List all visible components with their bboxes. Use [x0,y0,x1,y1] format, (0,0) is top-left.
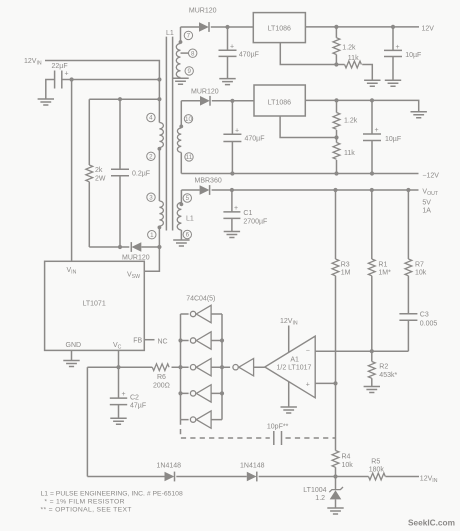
svg-text:74C04(5): 74C04(5) [186,296,215,303]
svg-text:R7: R7 [415,262,424,269]
svg-text:1.2k: 1.2k [344,117,358,124]
svg-text:C2: C2 [130,395,139,402]
svg-text:NC: NC [158,338,168,345]
svg-text:MUR120: MUR120 [189,7,217,14]
svg-text:1N4148: 1N4148 [240,463,265,470]
svg-text:C1: C1 [243,210,252,217]
svg-text:10pF**: 10pF** [267,424,289,431]
svg-text:SeekIC.com: SeekIC.com [408,518,455,528]
svg-text:180k: 180k [369,466,385,473]
svg-text:470µF: 470µF [245,136,265,143]
svg-text:3: 3 [149,194,153,201]
svg-text:9: 9 [187,68,191,75]
svg-text:R5: R5 [371,459,380,466]
svg-text:1.2k: 1.2k [342,45,356,52]
svg-text:1/2 LT1017: 1/2 LT1017 [277,365,312,372]
svg-text:+: + [122,391,126,398]
svg-text:10k: 10k [342,462,354,469]
svg-text:2k: 2k [95,167,103,174]
svg-text:1M*: 1M* [378,269,391,276]
svg-text:A1: A1 [290,357,299,364]
svg-text:2: 2 [149,154,153,161]
svg-text:MUR120: MUR120 [122,255,150,262]
svg-text:R3: R3 [341,262,350,269]
svg-text:* = 1% FILM RESISTOR: * = 1% FILM RESISTOR [44,499,125,506]
svg-text:LT1004: LT1004 [303,487,326,494]
svg-text:LT1086: LT1086 [268,25,291,32]
svg-text:1M: 1M [341,269,351,276]
svg-text:VIN: VIN [67,267,77,276]
svg-text:R6: R6 [157,374,166,381]
svg-text:2700µF: 2700µF [243,219,267,226]
svg-text:8: 8 [191,50,195,57]
svg-text:−12V: −12V [422,172,439,179]
svg-text:+: + [396,44,400,51]
svg-text:12VIN: 12VIN [420,475,438,484]
svg-text:12VIN: 12VIN [280,318,298,327]
svg-text:+: + [230,44,234,51]
svg-text:+: + [234,205,238,212]
svg-text:22µF: 22µF [52,63,68,70]
svg-text:R2: R2 [379,364,388,371]
svg-text:FB: FB [133,338,142,345]
svg-text:6: 6 [186,232,190,239]
svg-text:+: + [306,382,310,389]
svg-text:0.005: 0.005 [420,320,438,327]
svg-text:10µF: 10µF [405,52,421,59]
svg-text:−: − [306,348,310,355]
svg-text:** = OPTIONAL, SEE TEXT: ** = OPTIONAL, SEE TEXT [41,507,132,514]
svg-text:1: 1 [150,232,154,239]
svg-text:LT1086: LT1086 [268,100,291,107]
svg-text:VSW: VSW [127,271,140,280]
svg-text:R1: R1 [378,262,387,269]
svg-text:R4: R4 [342,453,351,460]
svg-text:L1: L1 [166,30,174,37]
svg-text:453k*: 453k* [379,372,397,379]
svg-text:12VIN: 12VIN [24,58,42,67]
svg-text:2W: 2W [95,176,106,183]
svg-text:10k: 10k [415,269,427,276]
svg-text:200Ω: 200Ω [153,383,170,390]
svg-text:VOUT: VOUT [422,188,438,197]
svg-text:+: + [65,71,69,78]
svg-text:47µF: 47µF [130,403,146,410]
svg-text:470µF: 470µF [239,51,259,58]
svg-text:11k: 11k [344,150,355,157]
svg-text:+: + [375,127,379,134]
svg-text:5: 5 [186,195,190,202]
svg-text:MUR120: MUR120 [191,89,219,96]
svg-text:VC: VC [113,342,122,351]
svg-text:C3: C3 [420,311,429,318]
svg-text:4: 4 [149,115,153,122]
svg-text:12V: 12V [422,26,435,33]
svg-text:MBR360: MBR360 [195,177,222,184]
svg-text:5V: 5V [422,200,431,207]
svg-text:L1: L1 [186,216,194,223]
svg-text:10µF: 10µF [385,136,401,143]
svg-text:GND: GND [66,342,82,349]
svg-text:L1 = PULSE ENGINEERING, INC.: L1 = PULSE ENGINEERING, INC. # PE-65108 [41,490,183,497]
svg-text:10: 10 [185,116,192,123]
svg-text:1N4148: 1N4148 [157,463,182,470]
svg-text:0.2µF: 0.2µF [132,171,150,178]
svg-text:LT1071: LT1071 [83,300,106,307]
svg-text:1.2: 1.2 [315,495,325,502]
svg-text:+: + [235,128,239,135]
svg-text:11k: 11k [348,55,359,62]
svg-text:1A: 1A [422,208,431,215]
svg-text:11: 11 [186,154,193,161]
svg-text:7: 7 [187,33,191,40]
